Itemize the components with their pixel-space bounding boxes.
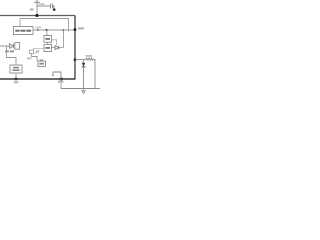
wire right main vertical V1 <box>74 16 76 80</box>
stub switch S1 <box>53 72 61 79</box>
label H3 text <box>36 27 42 29</box>
regulator U2 <box>44 36 52 43</box>
wire Q1 to buzzer <box>32 54 38 62</box>
wire to DC box <box>7 46 17 65</box>
wire D2 to rail <box>83 67 85 89</box>
capacitor C1 <box>51 4 53 9</box>
node junction H3-a <box>46 29 48 31</box>
transistor Q2 arrow <box>35 50 39 53</box>
label Q1 text <box>27 57 31 59</box>
ground <box>82 89 86 94</box>
wire bus to lower rail <box>60 79 62 89</box>
label PS2 text line1 <box>13 67 19 69</box>
converter PS2 <box>10 65 22 73</box>
opto input wire <box>0 45 10 47</box>
node junction bus-left <box>15 78 18 81</box>
label under bus text <box>14 81 19 83</box>
label R1 text <box>86 55 92 57</box>
wire PS2 to bus <box>15 73 17 79</box>
label U3 text <box>45 47 50 49</box>
wire right rail H6 <box>75 59 86 61</box>
label LS1 text <box>39 63 44 65</box>
node junction V1-H6 <box>74 58 77 61</box>
transistor Q1 <box>30 50 34 54</box>
label PS1 text <box>15 30 31 32</box>
wire top bus H1 <box>0 15 75 17</box>
wire U3 to D1 <box>52 47 56 49</box>
diode D2 <box>82 63 86 67</box>
connector J2 <box>15 43 20 50</box>
node junction on H1 <box>36 14 39 17</box>
resistor R1 <box>86 58 93 61</box>
node junction H3-b <box>63 29 65 31</box>
wire top branch <box>37 5 50 7</box>
wire bottom bus H4 <box>0 78 75 79</box>
buzzer LS1 <box>38 60 46 67</box>
wire lower rail H7 <box>61 88 100 90</box>
wire H3 output <box>33 29 75 31</box>
wire U3 feed to Q1 <box>34 49 45 51</box>
wire H6 right end <box>94 60 96 89</box>
wire D2 branch top <box>83 60 85 63</box>
regulator U3 <box>44 45 52 52</box>
diode D1 <box>55 46 59 50</box>
label F1 text <box>30 8 34 10</box>
stub end tick <box>52 75 54 77</box>
label PS2 text line2 <box>12 69 20 71</box>
arrow on H3 <box>37 29 39 31</box>
buffer gate U4 <box>10 44 14 49</box>
label top text <box>39 3 45 5</box>
label U2 text <box>45 38 50 40</box>
wire cap to terminal <box>53 6 54 9</box>
wire V3 riser <box>63 30 65 48</box>
node junction H3-V1 <box>74 28 77 31</box>
wire D1 to V3 <box>59 47 64 49</box>
node terminal dot <box>53 8 56 11</box>
wire U2 side jog <box>52 40 57 45</box>
label under gate text <box>5 50 14 52</box>
wire drop to U2 <box>46 30 48 36</box>
power module PS1 <box>14 27 34 35</box>
fuse F1 <box>34 1 39 16</box>
label stub text <box>58 81 63 83</box>
node junction bus-stub <box>60 78 63 81</box>
wire inner bus H2 <box>20 19 69 32</box>
wire U2 to U3 <box>47 42 49 44</box>
label right of V1 text <box>78 27 84 29</box>
